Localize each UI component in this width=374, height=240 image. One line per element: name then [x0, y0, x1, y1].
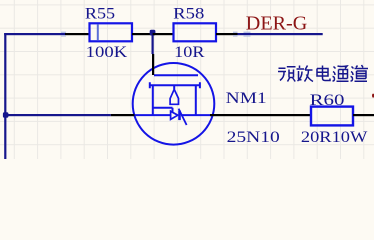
svg-text:25N10: 25N10	[227, 129, 280, 146]
wire: top horizontal net to R55	[4, 33, 65, 35]
Q rail right of arrow	[181, 114, 212, 116]
char 电	[317, 66, 330, 81]
junction: node below R55/R58	[150, 30, 156, 36]
Q source leg right	[195, 85, 197, 114]
Q leg drain stub	[152, 85, 154, 114]
resistor R60	[311, 107, 353, 126]
node: faint pin-end mark left of R55	[61, 32, 66, 37]
Q substrate arrow (hollow bullet)	[170, 89, 178, 104]
Q drain bar (line A)	[154, 74, 198, 76]
pin: R58 pin 1	[153, 33, 174, 35]
resistor R58	[174, 23, 217, 41]
wire: left vertical net	[4, 33, 6, 159]
pin: Q gate pin	[111, 114, 135, 116]
Q gate electrode line inside circle, left part	[134, 114, 171, 116]
char 道	[351, 65, 369, 81]
char 预	[278, 67, 296, 82]
pin: R60 pin 2 to edge	[353, 114, 374, 116]
Q leg middle stub	[173, 85, 175, 89]
label: Chinese note 预放电通道 (drawn strokes)	[278, 65, 368, 82]
char 放	[297, 66, 314, 82]
wire: net DER-G	[238, 33, 323, 35]
Q stem under bullet	[153, 108, 173, 113]
svg-text:100K: 100K	[86, 44, 128, 61]
pin: R58 pin 2	[216, 33, 238, 35]
Q body-diode arrow triangle	[171, 111, 178, 119]
svg-text:NM1: NM1	[226, 90, 267, 107]
Q diode slash	[179, 109, 187, 125]
pin: Q source pin to R60	[210, 114, 311, 116]
svg-text:10R: 10R	[174, 44, 205, 61]
svg-text:R60: R60	[310, 92, 345, 109]
junction: gate T node	[3, 112, 8, 118]
pin: R55 pin 1	[65, 33, 90, 35]
Q channel bar with end caps	[149, 82, 201, 88]
wire: gate net horizontal	[4, 114, 111, 116]
svg-text:20R10W: 20R10W	[301, 129, 369, 146]
transistor NM1 (MOSFET)	[133, 63, 215, 145]
svg-text:R58: R58	[173, 5, 204, 22]
node: faint pin-end marks on DER-G wire	[233, 32, 251, 37]
Q body circle	[133, 63, 215, 145]
pin: Q drain pin (black)	[152, 54, 154, 75]
resistor R55	[90, 23, 133, 41]
pin: R55 pin 2	[132, 33, 153, 35]
char 通	[333, 66, 349, 81]
label: clipped red text at right edge	[372, 94, 374, 98]
wire: junction to drain	[152, 34, 154, 54]
svg-text:R55: R55	[85, 5, 115, 22]
svg-text:DER-G: DER-G	[246, 13, 307, 35]
Q diode cathode bar	[178, 111, 181, 121]
